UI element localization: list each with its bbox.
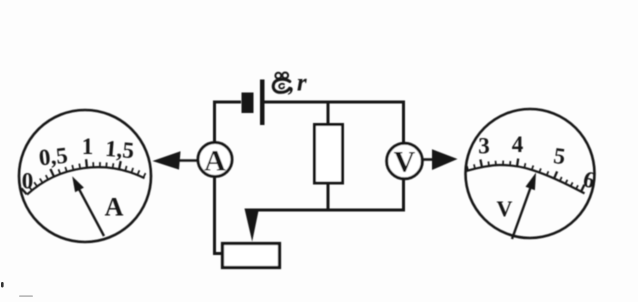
ammeter needle (78, 186, 104, 236)
svg-text:0,5: 0,5 (38, 143, 69, 171)
svg-text:1: 1 (82, 134, 94, 159)
svg-text:0: 0 (22, 169, 34, 194)
ammeter scale labels 0 / 0,5 / 1 / 1,5 (22, 134, 135, 194)
battery short thick plate (242, 93, 254, 114)
arrow from ammeter symbol to left dial (178, 159, 197, 162)
wire: resistor branch bottom (327, 183, 330, 210)
svg-text:V: V (497, 196, 513, 221)
arrow from voltmeter symbol to right dial (422, 158, 434, 161)
wire: ammeter top to corner (215, 102, 242, 143)
wire: battery to top-right corner, down to voltmeter (265, 102, 404, 144)
voltmeter needle (512, 185, 532, 239)
svg-text:4: 4 (512, 132, 524, 157)
svg-text:, r: , r (288, 70, 307, 97)
svg-text:1,5: 1,5 (104, 136, 135, 163)
scan speck bottom-left (1, 282, 4, 288)
rheostat slider arrow (245, 209, 260, 242)
wire: voltmeter bottom to bottom-right corner to bottom wire (248, 179, 404, 210)
voltmeter symbol V (387, 143, 423, 179)
ammeter symbol A (198, 143, 232, 178)
voltmeter dial face (right) (466, 109, 595, 238)
svg-text:A: A (204, 145, 226, 178)
ammeter dial face (left) (19, 110, 151, 242)
ammeter scale ticks (21, 159, 145, 194)
svg-text:V: V (394, 146, 416, 179)
svg-text:3: 3 (478, 134, 490, 159)
battery long thin plate (260, 80, 265, 126)
svg-text:A: A (105, 193, 124, 222)
wire: ammeter bottom down and to rheostat (215, 177, 223, 254)
voltmeter scale arc (466, 165, 585, 193)
ammeter scale arc (27, 167, 145, 194)
battery label script-E (EMF) (273, 73, 290, 93)
resistor R (315, 125, 343, 184)
voltmeter scale labels 3 4 5 6 (478, 132, 598, 193)
svg-text:5: 5 (552, 143, 567, 169)
voltmeter scale ticks (467, 159, 585, 192)
rheostat box (223, 244, 280, 268)
wire: resistor branch top (327, 102, 330, 125)
